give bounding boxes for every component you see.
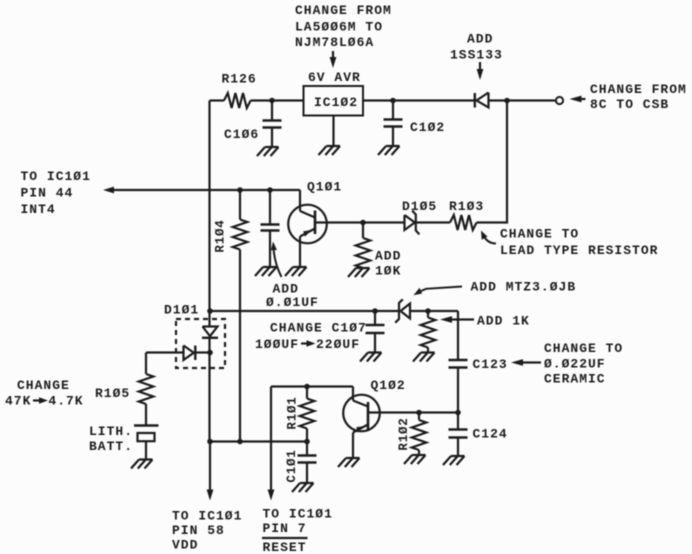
resistor R103: [450, 215, 477, 230]
svg-text:RESET: RESET: [263, 540, 307, 554]
capacitor C123: [449, 359, 468, 361]
svg-text:NJM78LØ6A: NJM78LØ6A: [295, 35, 374, 50]
svg-text:BATT.: BATT.: [89, 439, 133, 454]
wire: IC102 to diode 1SS133: [363, 99, 475, 101]
arrow to IC101 pin 7: [268, 490, 275, 501]
svg-text:R1Ø4: R1Ø4: [214, 219, 228, 252]
svg-text:8C TO CSB: 8C TO CSB: [590, 97, 669, 112]
svg-text:C1Ø2: C1Ø2: [410, 120, 445, 135]
wire: R104 down to bottom rail: [239, 250, 241, 442]
resistor R104: [239, 190, 241, 220]
wire: middle rail corner down to C123: [457, 311, 459, 360]
svg-text:CHANGE C1Ø7: CHANGE C1Ø7: [270, 321, 367, 336]
arrow from CHANGE TO 0.022UF note to C123: [523, 361, 541, 363]
svg-text:Ø.Ø1UF: Ø.Ø1UF: [266, 295, 319, 310]
node: junction middle rail / C107: [372, 308, 378, 314]
ground under C107: [360, 353, 382, 362]
node: junction reset rail / R101: [304, 384, 310, 390]
svg-text:CERAMIC: CERAMIC: [544, 372, 606, 387]
curved arrow from note to R103: [484, 236, 497, 244]
node: junction top rail / C106: [269, 98, 275, 104]
capacitor C102: [392, 101, 394, 120]
wire: R103 up to top rail: [477, 101, 507, 223]
svg-text:Q1Ø2: Q1Ø2: [371, 378, 406, 393]
node: junction left bus / middle rail: [207, 308, 213, 314]
ground under IC102: [319, 146, 341, 155]
ground under C102: [378, 146, 400, 155]
svg-text:Ø.Ø22UF: Ø.Ø22UF: [544, 357, 606, 372]
wire: INT4 rail with arrow to IC101 pin 44: [113, 189, 300, 191]
node: junction INT4 rail / 0.01UF cap: [267, 187, 273, 193]
svg-text:TO IC1Ø1: TO IC1Ø1: [263, 507, 333, 522]
node: junction bottom rail / left bus: [207, 439, 213, 445]
node: junction middle rail / ADD 1K resistor: [425, 308, 431, 314]
svg-text:LEAD TYPE RESISTOR: LEAD TYPE RESISTOR: [500, 243, 658, 258]
arrow from note to zener: [421, 287, 462, 292]
ground under Q101: [285, 267, 307, 276]
diode zener MTZ3.0JB cathode bar with hooks: [395, 299, 403, 322]
curved arrow from ADD 0.01UF note to capacitor: [274, 249, 282, 277]
ground under R102: [404, 455, 426, 464]
capacitor C124: [457, 413, 459, 430]
terminal: open circle CSB: [556, 97, 563, 104]
ground under 0.01UF cap: [255, 267, 277, 276]
diode D101 left half (horizontal, cathode right): [146, 351, 184, 353]
node: junction bottom rail / R104: [237, 439, 243, 445]
wire: Q101 base to D105: [315, 221, 405, 223]
svg-text:INT4: INT4: [21, 202, 56, 217]
wire: R126 to IC102: [251, 99, 304, 101]
svg-text:C123: C123: [473, 357, 508, 372]
node: junction base wire / C123 C124: [455, 410, 461, 416]
diode D101 top half (vertical, cathode down): [208, 311, 210, 327]
node: junction top rail / drop to R103: [504, 98, 510, 104]
svg-text:C124: C124: [473, 427, 508, 442]
wire: reset rail: [271, 385, 353, 387]
svg-text:1ØØUF: 1ØØUF: [255, 337, 299, 352]
wire: left bus D101 junction down to bottom rail: [208, 353, 210, 442]
battery: lithium battery: [134, 424, 159, 426]
ground under 10K resistor: [348, 268, 370, 277]
svg-text:22ØUF: 22ØUF: [316, 337, 360, 352]
node: junction base wire / R102: [416, 410, 422, 416]
wire: zener to 1K node: [410, 310, 458, 312]
svg-text:C1Ø6: C1Ø6: [224, 127, 259, 142]
svg-text:TO IC1Ø1: TO IC1Ø1: [172, 509, 242, 524]
svg-text:ADD 1K: ADD 1K: [477, 314, 530, 329]
svg-text:R1Ø1: R1Ø1: [286, 396, 300, 429]
wire: VDD drop with arrow: [209, 442, 211, 491]
svg-text:ADD: ADD: [467, 32, 493, 47]
wire: top rail left corner to R126: [210, 99, 225, 101]
svg-text:IC1Ø2: IC1Ø2: [314, 95, 358, 110]
wire: bottom rail: [210, 440, 308, 442]
capacitor C106: [271, 101, 273, 121]
svg-text:LITH.: LITH.: [89, 424, 133, 439]
ground under 1K resistor: [413, 353, 435, 362]
wire: D105 to R103: [416, 221, 450, 223]
resistor ADD 10K: [362, 223, 364, 239]
diode D101 (dual) dashed outline: [176, 319, 225, 368]
svg-text:6V AVR: 6V AVR: [308, 70, 361, 85]
svg-text:1SS133: 1SS133: [450, 48, 503, 63]
wire: IC102 ground stem: [332, 116, 334, 147]
svg-text:R1Ø5: R1Ø5: [95, 386, 130, 401]
arrow from note to diode 1SS133: [479, 62, 481, 71]
transistor Q101: [299, 190, 301, 211]
capacitor C107: [374, 311, 376, 325]
svg-text:CHANGE TO: CHANGE TO: [500, 227, 579, 242]
diode D105 cathode bar with hooks: [412, 211, 419, 235]
svg-text:47K: 47K: [5, 394, 31, 409]
svg-text:PIN 44: PIN 44: [21, 186, 74, 201]
ground under Q102: [338, 458, 360, 467]
ground under battery: [131, 460, 153, 469]
node: junction D101 diodes: [207, 350, 213, 356]
diode 1SS133 cathode bar: [474, 93, 476, 108]
svg-text:R126: R126: [222, 72, 257, 87]
arrow from note to terminal: [581, 98, 586, 100]
svg-text:R1Ø3: R1Ø3: [449, 199, 484, 214]
node: junction base wire / ADD 10K resistor: [360, 220, 366, 226]
svg-text:LA5ØØ6M TO: LA5ØØ6M TO: [295, 20, 383, 35]
wire: diode to terminal: [489, 99, 557, 101]
node: junction INT4 rail / R104: [237, 187, 243, 193]
svg-text:TO IC1Ø1: TO IC1Ø1: [21, 169, 91, 184]
svg-text:PIN 58: PIN 58: [172, 523, 225, 538]
capacitor ADD 0.01UF: [269, 190, 271, 225]
resistor R126: [224, 93, 251, 108]
svg-text:CHANGE: CHANGE: [17, 378, 70, 393]
svg-text:D1Ø5: D1Ø5: [402, 199, 437, 214]
resistor R105: [145, 353, 147, 375]
svg-text:1ØK: 1ØK: [375, 264, 401, 279]
svg-text:PIN 7: PIN 7: [263, 521, 307, 536]
resistor R102: [418, 413, 420, 421]
wire: middle rail: [210, 310, 400, 312]
svg-text:CHANGE FROM: CHANGE FROM: [590, 82, 687, 97]
wire: left vertical bus: [208, 101, 210, 312]
svg-text:D1Ø1: D1Ø1: [164, 303, 199, 318]
diode 1SS133 triangle: [477, 93, 489, 108]
op-amp: voltage regulator U/IC102 box: [304, 86, 364, 116]
capacitor C101: [306, 442, 308, 456]
resistor ADD 1K: [427, 311, 429, 318]
svg-text:4.7K: 4.7K: [48, 394, 83, 409]
ground under C106: [257, 147, 279, 156]
diode D105 triangle: [405, 215, 415, 230]
diode zener MTZ3.0JB triangle: [401, 304, 411, 319]
svg-text:Q1Ø1: Q1Ø1: [307, 180, 342, 195]
svg-text:ADD MTZ3.ØJB: ADD MTZ3.ØJB: [471, 280, 577, 295]
svg-text:VDD: VDD: [172, 538, 198, 553]
svg-text:R1Ø2: R1Ø2: [397, 417, 411, 450]
transistor Q102: [352, 387, 354, 401]
wire: Q102 base to R102/C124 node: [368, 411, 458, 413]
node: junction top rail / C102: [390, 98, 396, 104]
arrow from note to IC102: [332, 51, 334, 60]
svg-text:ADD: ADD: [375, 249, 401, 264]
node: junction bottom rail / R101 C101: [304, 439, 310, 445]
ground under C124: [443, 456, 465, 465]
svg-text:CHANGE TO: CHANGE TO: [544, 341, 623, 356]
svg-text:C1Ø1: C1Ø1: [285, 449, 299, 482]
resistor R101: [306, 387, 308, 399]
svg-text:CHANGE FROM: CHANGE FROM: [295, 3, 392, 18]
ground under C101: [292, 483, 314, 492]
wire: reset drop to arrow: [270, 387, 272, 491]
